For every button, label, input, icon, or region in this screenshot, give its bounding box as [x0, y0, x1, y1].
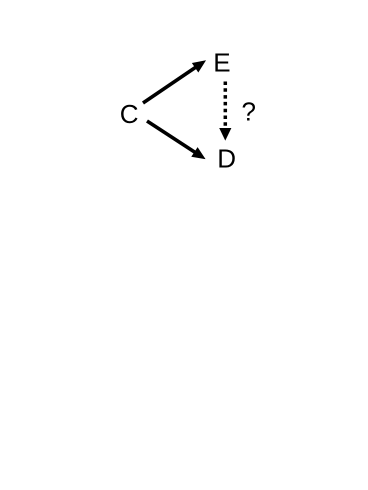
svg-text:C: C	[120, 99, 139, 129]
arrow C to E	[143, 61, 205, 103]
svg-text:E: E	[213, 48, 230, 78]
dashed arrow E to D	[220, 82, 231, 140]
arrow C to D	[147, 121, 205, 159]
svg-text:D: D	[217, 144, 236, 174]
svg-text:?: ?	[242, 96, 256, 126]
